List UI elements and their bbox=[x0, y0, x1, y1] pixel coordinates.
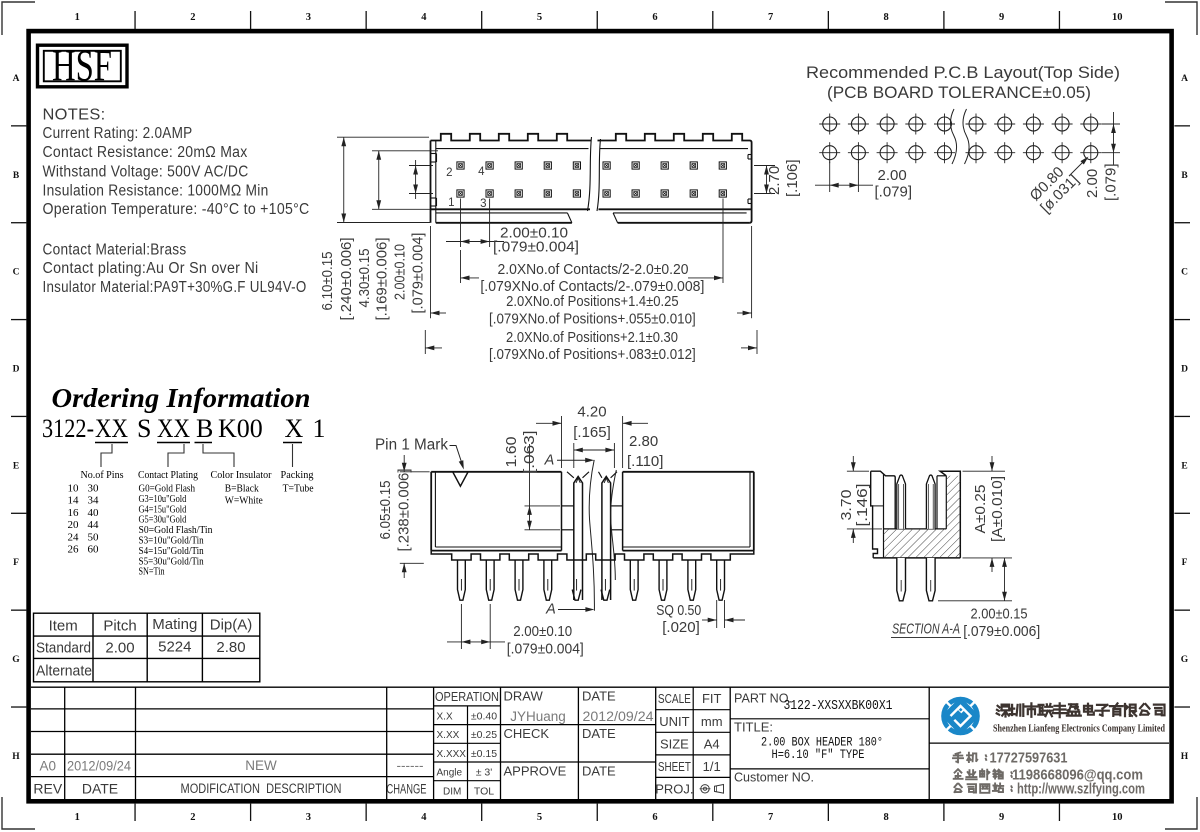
svg-text:7: 7 bbox=[768, 812, 773, 823]
top view right half body bbox=[597, 134, 752, 223]
svg-text:DATE: DATE bbox=[82, 781, 118, 797]
svg-text:14: 14 bbox=[68, 495, 80, 507]
recommended PCB layout title bbox=[806, 63, 1120, 102]
operation tolerance table bbox=[434, 687, 501, 800]
svg-text:1.60: 1.60 bbox=[503, 437, 520, 468]
svg-text:2.80: 2.80 bbox=[216, 639, 245, 656]
PCB pitch dimension 2.00 [.079] horizontal bbox=[815, 162, 912, 201]
svg-text:9: 9 bbox=[999, 812, 1004, 823]
svg-text:26: 26 bbox=[68, 544, 80, 556]
svg-text:1: 1 bbox=[313, 414, 326, 443]
svg-text:[.079±0.004]: [.079±0.004] bbox=[493, 239, 579, 256]
part no cell bbox=[730, 687, 929, 800]
svg-text:24: 24 bbox=[68, 531, 80, 543]
front view dimension 4.20 bbox=[536, 404, 648, 469]
svg-text:mm: mm bbox=[701, 714, 723, 729]
svg-text:HSF: HSF bbox=[52, 41, 112, 90]
svg-text:[.079XNo.of Positions+.083±0.0: [.079XNo.of Positions+.083±0.012] bbox=[489, 347, 696, 363]
front view mounting feet bbox=[431, 551, 754, 560]
svg-text:1: 1 bbox=[75, 12, 80, 23]
svg-text:±0.15: ±0.15 bbox=[471, 748, 497, 760]
svg-text:[.079]: [.079] bbox=[1103, 163, 1120, 201]
front view dimension 6.05 height bbox=[377, 455, 430, 578]
svg-text:B=Black: B=Black bbox=[225, 483, 260, 495]
svg-text:4: 4 bbox=[421, 12, 427, 23]
svg-text:1: 1 bbox=[448, 197, 454, 209]
company block divider bbox=[929, 742, 1169, 744]
svg-text:D: D bbox=[13, 365, 20, 375]
svg-text:A4: A4 bbox=[704, 736, 720, 751]
draw check approve cells bbox=[501, 687, 656, 800]
svg-text:Contact Resistance: 20mΩ Max: Contact Resistance: 20mΩ Max bbox=[43, 144, 248, 161]
ordering leader lines bbox=[101, 444, 293, 467]
svg-text:[.079±0.006]: [.079±0.006] bbox=[963, 623, 1040, 640]
svg-text:Contact plating:Au Or Sn over: Contact plating:Au Or Sn over Ni bbox=[43, 260, 259, 277]
front view cutting plane wavy lines bbox=[589, 460, 616, 611]
section arrow A bottom bbox=[545, 602, 594, 618]
svg-text:K00: K00 bbox=[218, 414, 263, 443]
svg-text:H: H bbox=[12, 752, 20, 762]
svg-text:SECTION A-A: SECTION A-A bbox=[892, 622, 960, 638]
front view dimension 1.60 step bbox=[503, 431, 560, 530]
svg-text:No.of Pins: No.of Pins bbox=[81, 469, 124, 481]
front view section pins bbox=[574, 477, 611, 601]
svg-text:[.079XNo.of Positions+.055±0.0: [.079XNo.of Positions+.055±0.010] bbox=[489, 311, 696, 327]
svg-text:MODIFICATION DESCRIPTION: MODIFICATION DESCRIPTION bbox=[181, 781, 342, 796]
svg-text:8: 8 bbox=[884, 812, 889, 823]
svg-text:2.70: 2.70 bbox=[766, 166, 783, 195]
front view dimension 2.80 bbox=[574, 433, 664, 470]
svg-text:S: S bbox=[137, 414, 151, 443]
top view dimension 4.30 bbox=[356, 151, 438, 321]
svg-text:2.00±0.10: 2.00±0.10 bbox=[392, 244, 409, 300]
front view pins bbox=[458, 560, 725, 600]
svg-text:6.10±0.15: 6.10±0.15 bbox=[319, 252, 336, 311]
front view section cut walls bbox=[562, 472, 623, 551]
svg-text:C: C bbox=[13, 268, 20, 278]
svg-text:1: 1 bbox=[75, 812, 80, 823]
top view dimension 2.00 row pitch bbox=[392, 160, 433, 314]
contact phone line bbox=[953, 751, 1068, 767]
svg-text:Ordering Information: Ordering Information bbox=[52, 382, 311, 413]
svg-text:[.169±0.006]: [.169±0.006] bbox=[374, 238, 391, 321]
svg-text:[.106]: [.106] bbox=[784, 159, 801, 197]
svg-text:[.079XNo.of Contacts/2-.079±0.: [.079XNo.of Contacts/2-.079±0.008] bbox=[480, 279, 704, 295]
svg-text:[.110]: [.110] bbox=[627, 453, 663, 470]
svg-text:2.0XNo.of Contacts/2-2.0±0.20: 2.0XNo.of Contacts/2-2.0±0.20 bbox=[498, 262, 689, 278]
revision table bbox=[31, 687, 434, 800]
pin number labels 1 2 3 4 bbox=[446, 166, 486, 210]
svg-text:F: F bbox=[13, 558, 19, 568]
company chinese name bbox=[997, 703, 1165, 717]
svg-text:Withstand Voltage: 500V AC/DC: Withstand Voltage: 500V AC/DC bbox=[43, 164, 249, 181]
svg-text:DRAW: DRAW bbox=[504, 689, 544, 704]
PCB layout break lines bbox=[951, 109, 957, 164]
svg-text:[.240±0.006]: [.240±0.006] bbox=[338, 238, 355, 321]
svg-text:APPROVE: APPROVE bbox=[504, 764, 567, 779]
svg-text:A: A bbox=[1181, 74, 1188, 84]
svg-text:Dip(A): Dip(A) bbox=[210, 617, 253, 634]
svg-text:A0: A0 bbox=[40, 759, 57, 774]
svg-text:PROJ.: PROJ. bbox=[655, 782, 693, 797]
svg-text:------: ------ bbox=[397, 758, 424, 773]
svg-text:X: X bbox=[285, 414, 304, 443]
svg-text:Item: Item bbox=[49, 618, 78, 635]
svg-text:A±0.25: A±0.25 bbox=[972, 485, 989, 534]
PCB layout hole pattern bbox=[819, 114, 1101, 164]
svg-text:[.020]: [.020] bbox=[662, 619, 700, 636]
svg-text:± 3': ± 3' bbox=[476, 767, 493, 779]
svg-text:±0.25: ±0.25 bbox=[471, 729, 497, 741]
svg-text:NOTES:: NOTES: bbox=[43, 107, 106, 124]
svg-text:DATE: DATE bbox=[582, 764, 616, 779]
svg-text:Pitch: Pitch bbox=[103, 618, 136, 635]
svg-text:Customer NO.: Customer NO. bbox=[734, 770, 814, 785]
svg-text:2.80: 2.80 bbox=[629, 433, 658, 450]
svg-text:B: B bbox=[1181, 171, 1188, 181]
svg-text:2.0XNo.of Positions+1.4±0.25: 2.0XNo.of Positions+1.4±0.25 bbox=[506, 294, 679, 310]
svg-text:2012/09/24: 2012/09/24 bbox=[67, 759, 131, 774]
svg-text:10: 10 bbox=[1112, 812, 1123, 823]
svg-text:60: 60 bbox=[88, 544, 100, 556]
svg-text:3: 3 bbox=[306, 812, 311, 823]
svg-text:5: 5 bbox=[537, 812, 542, 823]
svg-text:XX: XX bbox=[95, 414, 128, 443]
svg-text:Alternate: Alternate bbox=[36, 663, 92, 680]
part number breakdown 3122-XX S XX B K00 X 1 bbox=[42, 414, 326, 443]
svg-text:SN=Tin: SN=Tin bbox=[139, 566, 166, 578]
svg-text:UNIT: UNIT bbox=[659, 714, 689, 729]
svg-text:(PCB BOARD TOLERANCE±0.05): (PCB BOARD TOLERANCE±0.05) bbox=[827, 83, 1091, 102]
svg-text:TITLE:: TITLE: bbox=[734, 720, 773, 735]
svg-text:Mating: Mating bbox=[152, 616, 197, 633]
svg-text:CHANGE: CHANGE bbox=[387, 782, 427, 797]
svg-text:C: C bbox=[1181, 268, 1188, 278]
svg-text:5224: 5224 bbox=[158, 639, 191, 656]
svg-text:3.70: 3.70 bbox=[838, 490, 855, 521]
section A-A dimension 3.70 bbox=[838, 456, 882, 543]
svg-text:[.146]: [.146] bbox=[854, 484, 871, 527]
svg-text:E: E bbox=[1181, 461, 1187, 471]
svg-text:SCALE: SCALE bbox=[658, 691, 691, 706]
svg-text:30: 30 bbox=[88, 483, 100, 495]
svg-text:[.165]: [.165] bbox=[573, 424, 611, 441]
svg-text:40: 40 bbox=[88, 507, 100, 519]
svg-text:16: 16 bbox=[68, 507, 80, 519]
svg-text:A: A bbox=[544, 453, 555, 469]
svg-text:X.X: X.X bbox=[437, 712, 453, 723]
svg-text:2012/09/24: 2012/09/24 bbox=[583, 709, 655, 724]
svg-text:http://www.szlfying.com: http://www.szlfying.com bbox=[1017, 782, 1145, 798]
svg-text:SHEET: SHEET bbox=[658, 759, 691, 774]
svg-text:Operation Temperature: -40°C t: Operation Temperature: -40°C to +105°C bbox=[43, 201, 310, 218]
HSF company logo box bbox=[38, 41, 128, 90]
svg-text:JYHuang: JYHuang bbox=[510, 709, 566, 724]
svg-text:Insulation Resistance: 1000MΩ: Insulation Resistance: 1000MΩ Min bbox=[43, 183, 269, 200]
PCB row dimension 2.00 [.079] vertical bbox=[1084, 112, 1120, 201]
svg-text:2.00: 2.00 bbox=[105, 640, 134, 657]
svg-text:3122-XXSXXBK00X1: 3122-XXSXXBK00X1 bbox=[784, 699, 893, 714]
svg-text:17727597631: 17727597631 bbox=[990, 751, 1068, 767]
svg-text:8: 8 bbox=[884, 12, 889, 23]
svg-text:OPERATION: OPERATION bbox=[435, 690, 499, 704]
svg-text:Packing: Packing bbox=[281, 469, 314, 481]
contact email line bbox=[954, 768, 1143, 784]
ordering column no.of pins bbox=[68, 469, 124, 556]
svg-text:44: 44 bbox=[88, 519, 100, 531]
svg-text:[.079±0.004]: [.079±0.004] bbox=[507, 640, 584, 657]
section A-A left wall bbox=[871, 471, 896, 558]
svg-text:2.0XNo.of Positions+2.1±0.30: 2.0XNo.of Positions+2.1±0.30 bbox=[506, 330, 678, 346]
svg-text:A: A bbox=[545, 602, 556, 618]
svg-text:2: 2 bbox=[446, 167, 452, 179]
top view dimension 6.10 height bbox=[319, 137, 430, 320]
svg-text:CHECK: CHECK bbox=[504, 726, 550, 741]
svg-text:±0.40: ±0.40 bbox=[471, 711, 497, 723]
svg-text:[.063]: [.063] bbox=[521, 431, 538, 474]
projection symbol bbox=[700, 785, 724, 794]
front view pin pitch dimension 2.00 bbox=[447, 604, 584, 657]
svg-text:Current Rating: 2.0AMP: Current Rating: 2.0AMP bbox=[43, 125, 193, 142]
svg-text:TOL: TOL bbox=[474, 785, 494, 797]
top view contact pins grid bbox=[457, 162, 727, 197]
svg-text:[.079±0.004]: [.079±0.004] bbox=[410, 233, 427, 314]
svg-text:DIM: DIM bbox=[443, 786, 461, 797]
front view body right half bbox=[623, 472, 754, 551]
svg-text:Pin 1 Mark: Pin 1 Mark bbox=[375, 437, 448, 454]
svg-text:2.00±0.10: 2.00±0.10 bbox=[513, 623, 572, 640]
svg-text:50: 50 bbox=[88, 531, 100, 543]
svg-text:6.05±0.15: 6.05±0.15 bbox=[377, 481, 394, 540]
svg-text:W=White: W=White bbox=[225, 495, 263, 507]
svg-text:[.238±0.006]: [.238±0.006] bbox=[396, 469, 413, 552]
svg-text:4: 4 bbox=[421, 812, 427, 823]
svg-text:5: 5 bbox=[537, 12, 542, 23]
ordering column color insulator bbox=[211, 469, 272, 507]
svg-text:20: 20 bbox=[68, 519, 80, 531]
svg-text:DATE: DATE bbox=[582, 726, 616, 741]
PCB hole diameter 0.80 callout bbox=[1026, 157, 1089, 217]
svg-text:10: 10 bbox=[1112, 12, 1123, 23]
pin 1 mark notch bbox=[453, 472, 468, 486]
svg-text:Shenzhen Lianfeng Electronics: Shenzhen Lianfeng Electronics Company Li… bbox=[993, 724, 1165, 735]
svg-text:Insulator Material:PA9T+30%G.F: Insulator Material:PA9T+30%G.F UL94V-O bbox=[43, 279, 307, 296]
section A-A right wall hatched bbox=[937, 471, 960, 558]
svg-text:[A±0.010]: [A±0.010] bbox=[989, 476, 1006, 542]
svg-text:6: 6 bbox=[652, 12, 657, 23]
svg-text:Recommended P.C.B Layout(Top S: Recommended P.C.B Layout(Top Side) bbox=[806, 63, 1120, 82]
top view dimension positions+1.4 span bbox=[431, 226, 752, 327]
svg-text:9: 9 bbox=[999, 12, 1004, 23]
svg-text:G: G bbox=[1181, 655, 1189, 665]
svg-text:SQ 0.50: SQ 0.50 bbox=[656, 602, 701, 619]
top view left half body bbox=[431, 134, 592, 223]
section A-A hatched base bbox=[873, 529, 960, 558]
svg-text:4.30±0.15: 4.30±0.15 bbox=[356, 249, 373, 308]
svg-text:DATE: DATE bbox=[582, 689, 616, 704]
svg-text:Color Insulator: Color Insulator bbox=[211, 469, 272, 481]
svg-text:NEW: NEW bbox=[245, 758, 277, 773]
svg-text:SIZE: SIZE bbox=[660, 736, 689, 751]
svg-text:F: F bbox=[1182, 558, 1188, 568]
svg-text:10: 10 bbox=[68, 483, 80, 495]
svg-text:FIT: FIT bbox=[702, 691, 722, 706]
svg-text:E: E bbox=[13, 461, 19, 471]
svg-text:2: 2 bbox=[190, 12, 195, 23]
scale unit size sheet proj cells bbox=[655, 687, 730, 800]
pin 1 mark label bbox=[375, 437, 464, 470]
svg-text:G: G bbox=[12, 655, 20, 665]
svg-text:2: 2 bbox=[190, 812, 195, 823]
contact website line bbox=[954, 782, 1145, 798]
ordering column packing bbox=[281, 469, 314, 495]
svg-text:3: 3 bbox=[306, 12, 311, 23]
section arrow A top bbox=[544, 453, 595, 469]
svg-text:X.XX: X.XX bbox=[437, 730, 460, 741]
svg-text:[.079]: [.079] bbox=[875, 184, 913, 201]
svg-text:T=Tube: T=Tube bbox=[283, 483, 314, 495]
svg-text:H: H bbox=[1181, 752, 1189, 762]
svg-text:2.00±0.15: 2.00±0.15 bbox=[971, 606, 1028, 623]
svg-text:2.00: 2.00 bbox=[878, 167, 907, 184]
svg-text:H=6.10 "F" TYPE: H=6.10 "F" TYPE bbox=[772, 747, 865, 762]
section A-A dimension A plus-minus 0.25 bbox=[963, 456, 1007, 572]
svg-text:3: 3 bbox=[480, 198, 486, 210]
svg-text:7: 7 bbox=[768, 12, 773, 23]
lianfeng logo bbox=[941, 697, 979, 735]
top view dimension contacts span bbox=[461, 199, 724, 295]
svg-text:6: 6 bbox=[652, 812, 657, 823]
svg-text:Contact Plating: Contact Plating bbox=[138, 469, 198, 481]
front view SQ 0.50 pin size bbox=[656, 600, 745, 636]
title block top line bbox=[31, 686, 1169, 688]
svg-text:1/1: 1/1 bbox=[703, 759, 721, 774]
section A-A label bbox=[891, 622, 961, 638]
front view body left half bbox=[431, 472, 561, 551]
svg-text:3122-: 3122- bbox=[42, 414, 94, 443]
ordering column contact plating bbox=[138, 469, 213, 578]
item pitch mating table bbox=[34, 613, 260, 682]
svg-text:Angle: Angle bbox=[437, 768, 463, 779]
svg-text:Contact Material:Brass: Contact Material:Brass bbox=[43, 242, 187, 259]
notes text block bbox=[43, 107, 310, 297]
svg-text:A: A bbox=[13, 74, 20, 84]
svg-text:4.20: 4.20 bbox=[577, 404, 606, 421]
section A-A dimension 2.00 tail length bbox=[938, 558, 1040, 640]
svg-text:B: B bbox=[13, 171, 20, 181]
svg-text:XX: XX bbox=[157, 414, 190, 443]
svg-text:REV: REV bbox=[33, 781, 62, 797]
svg-text:B: B bbox=[196, 414, 213, 443]
svg-text:2.00: 2.00 bbox=[1084, 169, 1101, 198]
svg-text:Standard: Standard bbox=[36, 640, 91, 657]
top view dimension positions+2.1 span bbox=[425, 330, 757, 363]
svg-text:X.XXX: X.XXX bbox=[437, 749, 467, 760]
svg-text:34: 34 bbox=[88, 495, 100, 507]
top view dimension 2.70 right bbox=[754, 159, 801, 197]
svg-text:4: 4 bbox=[478, 166, 485, 178]
top view dimension 2.00 contact pitch bbox=[446, 199, 579, 256]
section A-A pins bbox=[897, 475, 935, 601]
svg-text:D: D bbox=[1181, 365, 1188, 375]
